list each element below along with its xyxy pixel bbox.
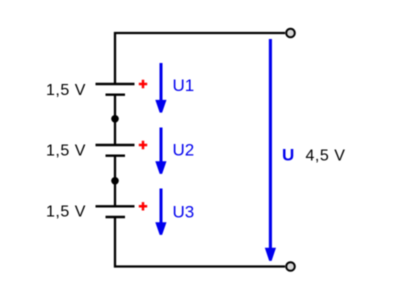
junction dot between B2 and B3 [111,177,119,185]
junction dot between B1 and B2 [111,115,119,123]
voltage arrow U3 [155,189,166,235]
svg-text:1,5 V: 1,5 V [46,204,86,221]
battery B2 short plate (-) [106,154,126,156]
svg-text:1,5 V: 1,5 V [46,82,86,99]
plus sign of B3 [139,202,147,210]
battery B3 long plate (+) [96,205,135,207]
voltage arrow U1 [155,63,166,113]
wire between B2 and B3 [114,156,116,207]
svg-text:U1: U1 [173,76,195,95]
svg-text:4,5 V: 4,5 V [306,148,346,165]
total voltage arrow U [265,39,276,261]
voltage arrow U2 [155,128,166,174]
terminal bottom (right, open circle) [286,262,295,271]
battery B1 long plate (+) [96,83,135,85]
svg-text:U: U [282,146,294,165]
plus sign of B1 [139,80,147,88]
wire bottom (from B3 to right terminal) [115,217,285,267]
svg-text:U2: U2 [173,141,195,160]
battery B3 short plate (-) [106,216,126,218]
wire top (from left branch to right terminal) [115,33,285,83]
wire between B1 and B2 [114,95,116,145]
battery B1 short plate (-) [106,93,126,95]
svg-text:U3: U3 [173,202,195,221]
terminal top (right, open circle) [286,29,295,38]
plus sign of B2 [139,141,147,149]
svg-text:1,5 V: 1,5 V [46,143,86,160]
battery B2 long plate (+) [96,144,135,146]
